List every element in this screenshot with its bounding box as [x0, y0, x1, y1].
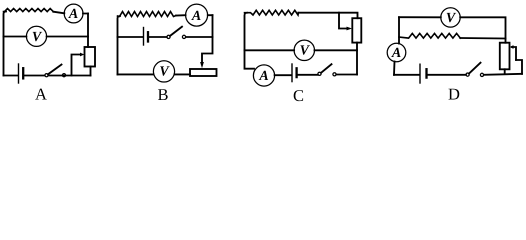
- svg-text:V: V: [446, 11, 457, 26]
- wire: A right bus down to rheostat top: [87, 14, 89, 48]
- resistor (B top): [118, 12, 177, 17]
- battery (A) short plate: [22, 68, 24, 78]
- wire: C right bus: [356, 43, 358, 75]
- switch (B): [167, 35, 170, 38]
- rheostat (A) body: [85, 47, 96, 67]
- svg-text:A: A: [191, 9, 201, 24]
- wire: rheostat bottom stub: [90, 67, 92, 76]
- svg-text:A: A: [35, 85, 47, 104]
- wire: D resistor to junction: [460, 38, 505, 43]
- wire: B right bus: [202, 15, 213, 63]
- wire: B bottom branch: [118, 73, 191, 75]
- voltmeter C: [294, 40, 314, 60]
- battery (B) long plate: [143, 28, 145, 46]
- ammeter D: [387, 43, 406, 62]
- wire: resistor to ammeter: [53, 12, 88, 14]
- svg-text:D: D: [448, 85, 460, 104]
- svg-text:A: A: [391, 46, 401, 61]
- battery (A) long plate: [18, 64, 20, 83]
- rheostat (D) body: [500, 43, 510, 70]
- wire: voltmeter branch: [4, 36, 89, 38]
- svg-text:C: C: [293, 86, 304, 103]
- ammeter A: [64, 4, 83, 23]
- switch (A): [45, 74, 48, 77]
- wire: B middle branch: [118, 36, 213, 38]
- resistor (A top): [4, 9, 54, 12]
- wire: C voltmeter branch: [245, 49, 358, 51]
- wire: D left bus top: [398, 17, 400, 43]
- wiper arrowhead (C): [347, 27, 353, 31]
- wire: resistor to ammeter: [176, 14, 213, 16]
- svg-text:A: A: [68, 7, 78, 22]
- switch (C): [318, 72, 321, 75]
- battery (D) short plate: [425, 69, 427, 77]
- svg-text:V: V: [32, 30, 43, 45]
- wire: C left bus: [245, 13, 255, 69]
- wire: B left bus: [118, 16, 121, 74]
- switch (D): [466, 73, 469, 76]
- rheostat (C) body: [352, 18, 361, 42]
- wire: D bottom branch: [394, 74, 522, 75]
- svg-text:B: B: [157, 85, 168, 103]
- wire: D ammeter to bottom: [393, 62, 396, 75]
- battery (C) short plate: [295, 68, 297, 77]
- ammeter B: [186, 4, 208, 26]
- svg-text:A: A: [258, 69, 268, 84]
- resistor (D): [399, 33, 460, 38]
- voltmeter V: [26, 26, 46, 46]
- svg-text:V: V: [300, 44, 311, 59]
- ammeter C: [253, 65, 274, 86]
- rheostat (A) wiper arrow: [72, 55, 81, 76]
- rheostat (D) wiper arrow: [512, 47, 516, 60]
- battery (C) long plate: [291, 64, 293, 82]
- wire: D wiper to right bus: [516, 60, 522, 74]
- wire: D top branch: [399, 17, 506, 38]
- wire: D rheostat bottom stub: [504, 69, 506, 74]
- svg-text:V: V: [159, 65, 170, 80]
- wire: C wiper tap: [339, 13, 348, 29]
- battery (B) short plate: [147, 32, 149, 41]
- wire: C bottom branch: [275, 74, 357, 77]
- wire: A left bus: [4, 12, 7, 76]
- wire: A bottom: [4, 75, 91, 77]
- wire: C top to rheostat: [298, 13, 357, 19]
- wiper arrowhead (B): [200, 62, 204, 68]
- rheostat (B) body: [190, 69, 217, 76]
- resistor (C top): [245, 10, 299, 15]
- battery (D) long plate: [419, 64, 421, 83]
- voltmeter D: [441, 8, 460, 27]
- voltmeter B: [153, 61, 174, 82]
